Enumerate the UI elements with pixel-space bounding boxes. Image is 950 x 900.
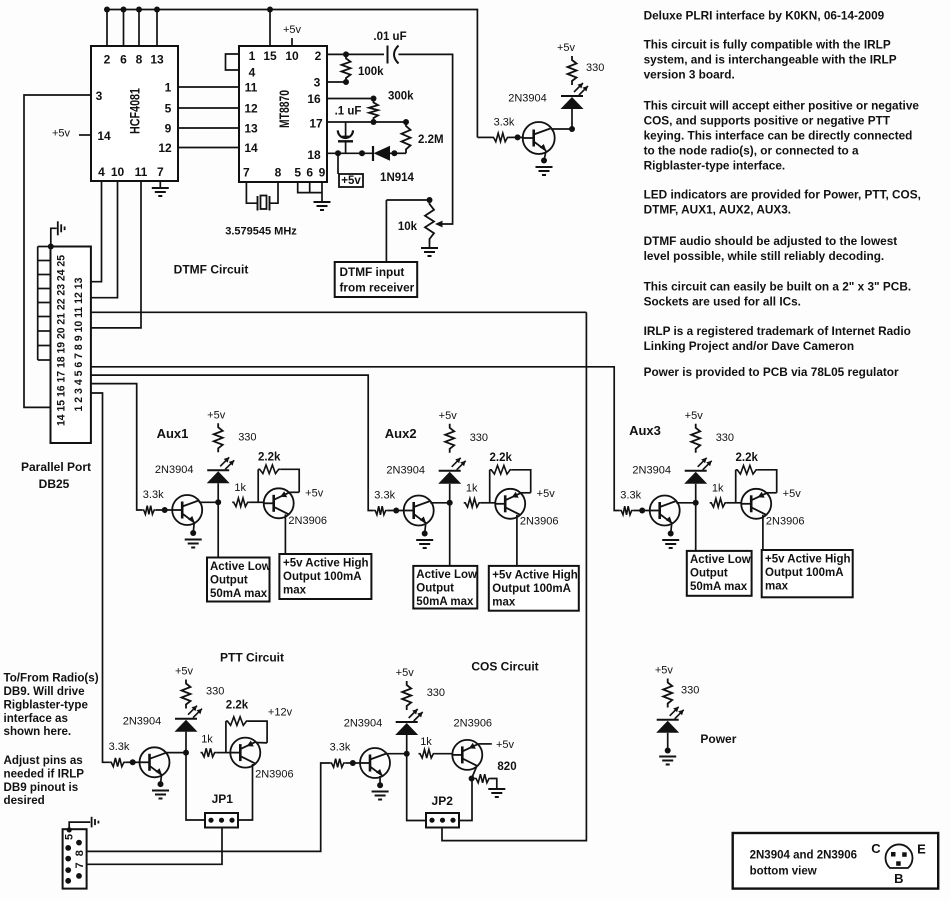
- svg-text:needed if IRLP: needed if IRLP: [4, 767, 85, 780]
- wire: MT8870 pin17 to 2.2M: [327, 121, 406, 123]
- svg-text:Aux1: Aux1: [157, 426, 189, 441]
- wire: DTMF input to 10k pot top: [386, 199, 429, 201]
- wire: HCF4081 pin14 +5v stub: [79, 134, 91, 136]
- transistor 2N3904 (PTT): [140, 747, 170, 777]
- wire: 2N3904 emitter to ground (DTMF): [544, 151, 546, 161]
- HCF4081 top pin stubs 2 6 8 13: [106, 10, 108, 47]
- svg-text:C: C: [871, 841, 881, 856]
- svg-text:Sockets are used for all ICs.: Sockets are used for all ICs.: [644, 294, 801, 308]
- wire: Aux2 2N3906 collector to Active High box: [516, 515, 518, 566]
- ground at 820 (COS): [488, 789, 505, 797]
- Aux3 +5v Active High output box: [762, 550, 853, 597]
- wire: base to 2.2k (Aux3): [735, 470, 737, 503]
- svg-text:from receiver: from receiver: [340, 281, 415, 295]
- junction 2.2M top / pin17 wire: [403, 119, 409, 125]
- svg-text:COS Circuit: COS Circuit: [471, 660, 538, 674]
- ground at MT8870 pins 5 6 9: [314, 202, 331, 210]
- Aux1 Active Low output box: [207, 558, 270, 602]
- svg-text:5: 5: [64, 834, 76, 840]
- wire: Aux1 junction to Active Low box: [217, 502, 219, 557]
- svg-text:2.2k: 2.2k: [226, 700, 249, 712]
- svg-text:330: 330: [716, 432, 734, 444]
- wire: MT8870 pin16 to 300k: [327, 98, 374, 100]
- svg-text:2N3906: 2N3906: [288, 515, 327, 527]
- svg-text:13: 13: [150, 53, 164, 67]
- resistor 300k: [369, 99, 378, 123]
- svg-text:50mA max: 50mA max: [416, 596, 474, 608]
- wire: 2.2k to emitter +5v node (Aux3): [758, 470, 777, 493]
- DB25 grounded pin stubs: [38, 246, 51, 248]
- svg-text:DTMF Circuit: DTMF Circuit: [174, 263, 249, 277]
- svg-text:max: max: [283, 585, 307, 597]
- svg-text:330: 330: [470, 432, 488, 444]
- svg-text:Output: Output: [690, 568, 728, 580]
- wire: 2.2k to +12v emitter node (PTT): [248, 721, 267, 743]
- resistor 330 (Aux3): [691, 424, 700, 453]
- svg-text:330: 330: [238, 431, 256, 443]
- wire: 2N3904 emitter to ground (Aux1): [193, 523, 194, 533]
- svg-text:+5v: +5v: [783, 488, 802, 500]
- junction collector/LED (DTMF): [569, 126, 575, 132]
- wire: 3.3k to 2N3904 base (Aux2): [387, 510, 404, 512]
- svg-text:+5v: +5v: [283, 24, 302, 36]
- svg-text:DTMF input: DTMF input: [340, 265, 405, 279]
- svg-text:+5v: +5v: [341, 175, 361, 187]
- wire: 2N3904 emitter to ground (PTT): [161, 775, 162, 784]
- svg-text:16: 16: [307, 92, 321, 106]
- wire: 2N3906 collector to JP1 right pin (PTT): [238, 764, 253, 820]
- junction 300k bottom / pin17 wire: [371, 119, 377, 125]
- junction HCF4081 pin6 / rail: [121, 7, 127, 13]
- resistor 2.2M: [402, 122, 411, 153]
- wire: 3.3k to 2N3904 base (Aux3): [633, 510, 650, 512]
- junction emitter/ground (PTT): [158, 781, 164, 787]
- svg-text:2N3906: 2N3906: [255, 769, 294, 781]
- resistor 330 (COS): [402, 681, 411, 710]
- transistor 2N3904 (DTMF): [523, 122, 555, 154]
- svg-text:7: 7: [74, 862, 86, 868]
- svg-text:+5v Active High: +5v Active High: [765, 554, 851, 566]
- wire: 1N914 to 2.2M bottom: [390, 152, 406, 154]
- junction 3.3k / base (Aux1): [162, 507, 168, 513]
- wire: HCF4081 pin3 to DB25 pin14: [24, 95, 91, 407]
- wire: DB25 shield to ground: [51, 228, 57, 246]
- wire: HCF4081 pin1 to MT8870 pin11: [178, 86, 239, 88]
- svg-text:330: 330: [681, 685, 699, 697]
- wire: LED to junction (PTT): [185, 732, 187, 753]
- svg-text:2N3904: 2N3904: [344, 718, 383, 730]
- transistor 2N3906 (Aux3): [741, 489, 771, 519]
- svg-text:5: 5: [165, 102, 172, 116]
- transistor can outline (bottom view): [886, 844, 913, 868]
- LED (Aux2): [439, 458, 466, 471]
- svg-text:JP2: JP2: [432, 794, 454, 808]
- junction 10k pot top: [427, 197, 433, 203]
- svg-text:14 15 16 17 18 19 20 21 22 23: 14 15 16 17 18 19 20 21 22 23 24 25: [56, 255, 68, 426]
- wire: LED to collector junction (Aux2): [449, 484, 451, 503]
- svg-text:2.2k: 2.2k: [490, 452, 513, 464]
- svg-text:+5v: +5v: [537, 488, 556, 500]
- svg-text:level possible, while still re: level possible, while still reliably dec…: [644, 249, 885, 263]
- svg-text:50mA max: 50mA max: [210, 588, 268, 600]
- svg-text:11: 11: [135, 165, 148, 179]
- wire: 2N3904 emitter to ground (Aux3): [671, 524, 672, 534]
- junction collector/LED/1k (COS): [404, 751, 410, 757]
- svg-text:50mA max: 50mA max: [690, 581, 748, 593]
- bottom view pin C: [891, 852, 896, 857]
- resistor 2.2k (PTT): [226, 717, 248, 726]
- crystal 3.579545 MHz: [257, 196, 259, 211]
- svg-text:9: 9: [319, 166, 326, 180]
- ground at Power LED: [659, 757, 676, 765]
- svg-text:2N3906: 2N3906: [520, 515, 559, 527]
- ground at 10k pot: [421, 248, 438, 256]
- svg-text:+5v Active High: +5v Active High: [283, 558, 369, 570]
- DB9 pin top right: [76, 840, 82, 846]
- resistor 3.3k (Aux2): [374, 506, 388, 515]
- wire: MT8870 pin10 +5v stub: [291, 38, 293, 46]
- svg-text:1k: 1k: [234, 482, 246, 494]
- wire: DB25 pin5 to Aux2 input: [91, 375, 374, 510]
- junction pin16/300k top: [371, 96, 377, 102]
- svg-text:300k: 300k: [388, 91, 414, 103]
- DB9 pins left column (6 9 4 3): [65, 845, 71, 851]
- resistor 2.2k (Aux1): [258, 465, 280, 474]
- LED (Aux1): [207, 457, 234, 470]
- junction 3.3k / base (Aux2): [393, 508, 399, 514]
- svg-text:330: 330: [586, 62, 604, 74]
- junction HCF4081 pin2 / rail: [104, 7, 110, 13]
- resistor 3.3k (Aux3): [620, 506, 634, 515]
- svg-text:system, and is interchangeable: system, and is interchangeable with the …: [644, 52, 897, 66]
- connector J1 DB25 body: [51, 247, 91, 444]
- resistor 3.3k (COS): [330, 759, 345, 768]
- svg-text:3.3k: 3.3k: [109, 741, 130, 753]
- svg-text:bottom view: bottom view: [750, 866, 817, 878]
- ground at 2N3904 emitter (Aux3): [662, 540, 679, 548]
- wire: emitter to 2.2k corner (Aux2): [521, 492, 531, 494]
- svg-text:Aux2: Aux2: [385, 426, 417, 441]
- svg-text:+5v Active High: +5v Active High: [492, 569, 578, 581]
- svg-text:3.3k: 3.3k: [330, 742, 351, 754]
- wire: base to 2.2k (Aux1): [257, 469, 259, 502]
- svg-text:interface as: interface as: [4, 712, 68, 725]
- svg-text:1k: 1k: [201, 734, 213, 746]
- svg-text:IRLP is a registered trademark: IRLP is a registered trademark of Intern…: [644, 324, 911, 338]
- svg-text:8: 8: [74, 850, 86, 856]
- svg-text:DB25: DB25: [39, 477, 70, 491]
- svg-text:2: 2: [315, 49, 322, 63]
- jumper JP1: [205, 813, 238, 828]
- wire: 2.2k to emitter +5v node (Aux1): [280, 469, 299, 492]
- svg-text:+5v: +5v: [496, 739, 515, 751]
- svg-text:1 2 3 4 5 6 7 8 9 10 11 12 13: 1 2 3 4 5 6 7 8 9 10 11 12 13: [73, 278, 85, 412]
- IC U1 MT8870 body: [239, 46, 327, 182]
- svg-text:Rigblaster-type interface.: Rigblaster-type interface.: [644, 159, 786, 173]
- wire: pin18 node to +5v box: [337, 153, 339, 174]
- wire: .01uF cap to 10k pot wiper: [399, 54, 453, 224]
- svg-text:+5v: +5v: [685, 410, 704, 422]
- LED (DTMF): [561, 83, 588, 96]
- svg-text:DTMF audio should be adjusted: DTMF audio should be adjusted to the low…: [644, 234, 898, 248]
- transistor 2N3904 (Aux2): [404, 496, 434, 526]
- ground at DB9 (rotated): [92, 817, 99, 828]
- resistor 100k: [342, 54, 351, 82]
- svg-text:This circuit will accept eithe: This circuit will accept either positive…: [644, 99, 920, 113]
- resistor 330 (Power): [663, 679, 672, 708]
- svg-text:Output: Output: [210, 575, 248, 587]
- junction collector/820/JP2 (COS): [469, 776, 475, 782]
- svg-text:3: 3: [96, 89, 103, 103]
- wire: MT8870 pin15 to StD rail: [269, 10, 271, 47]
- wire: HCF4081 pin11 to DB25 pin10: [91, 181, 141, 328]
- svg-text:1: 1: [249, 49, 256, 63]
- svg-text:9: 9: [165, 122, 172, 136]
- wire: Aux3 junction to Active Low box: [695, 503, 697, 551]
- Aux3 Active Low output box: [687, 551, 752, 596]
- svg-text:Active Low: Active Low: [416, 569, 477, 581]
- ground at HCF4081 pin7: [152, 188, 169, 196]
- svg-text:12: 12: [158, 141, 172, 155]
- svg-text:DB9. Will drive: DB9. Will drive: [4, 685, 86, 698]
- +5v boxed label at MT8870 pin18: [339, 174, 363, 187]
- wire: collector to LED junction (Aux1): [199, 501, 219, 503]
- svg-text:10: 10: [285, 49, 299, 63]
- wire: MT8870 pin9 to ground: [321, 182, 323, 201]
- wire: DB25 pin11 net down to JP2 center pin: [442, 312, 586, 840]
- svg-text:3.3k: 3.3k: [494, 117, 515, 129]
- junction MT8870 pin15 / rail: [267, 7, 273, 13]
- svg-text:3: 3: [314, 76, 321, 90]
- svg-text:Adjust pins as: Adjust pins as: [4, 754, 83, 767]
- junction pin18 / +5v: [335, 150, 341, 156]
- junction diode cathode node: [391, 150, 397, 156]
- svg-text:+5v: +5v: [439, 410, 458, 422]
- ground at 2N3904 emitter (DTMF): [536, 167, 553, 175]
- wire: HCF4081 pin5 to MT8870 pin12: [178, 107, 239, 109]
- svg-text:Output 100mA: Output 100mA: [765, 567, 844, 579]
- Aux2 Active Low output box: [413, 566, 477, 609]
- svg-text:330: 330: [206, 686, 224, 698]
- junction pin2/100k top: [343, 51, 349, 57]
- junction 100k bottom / pin3: [343, 79, 349, 85]
- ground at 2N3904 emitter (Aux1): [185, 540, 202, 548]
- svg-text:330: 330: [427, 687, 445, 699]
- transistor 2N3904 (COS): [360, 748, 390, 778]
- junction collector/LED/1k (PTT): [183, 750, 189, 756]
- svg-text:7: 7: [243, 166, 250, 180]
- wire: Aux3 2N3906 collector to Active High box: [762, 515, 764, 550]
- svg-text:desired: desired: [4, 794, 45, 807]
- svg-text:3.3k: 3.3k: [143, 489, 164, 501]
- wire: collector to LED junction (Aux2): [430, 502, 450, 504]
- svg-text:13: 13: [244, 122, 258, 136]
- wire: base to 2.2k (PTT): [225, 721, 227, 753]
- wire: 1k to 2N3906 base (COS): [435, 753, 452, 755]
- wire: base to 2.2k (Aux2): [489, 470, 491, 503]
- svg-text:DB9 pinout is: DB9 pinout is: [4, 781, 79, 794]
- svg-text:max: max: [492, 596, 516, 608]
- junction Power LED / ground: [665, 748, 671, 754]
- junction collector/LED/1k/output (Aux2): [447, 500, 453, 506]
- svg-text:2N3904: 2N3904: [123, 716, 162, 728]
- wire: emitter to +12v corner (PTT): [256, 742, 267, 744]
- svg-text:PTT Circuit: PTT Circuit: [220, 651, 284, 665]
- svg-text:to the node radio(s), or conne: to the node radio(s), or connected to a: [644, 144, 859, 158]
- junction DB9 shield: [67, 827, 72, 832]
- transistor 2N3906 (PTT): [230, 738, 260, 768]
- svg-text:2: 2: [104, 53, 111, 67]
- svg-text:2N3904: 2N3904: [632, 465, 671, 477]
- svg-text:JP1: JP1: [212, 792, 234, 806]
- wire: DB9 shield to ground: [69, 822, 90, 830]
- svg-text:Power is provided to PCB via 7: Power is provided to PCB via 78L05 regul…: [644, 365, 899, 379]
- wire: DB25 pin3 to PTT input: [91, 393, 110, 762]
- svg-text:HCF4081: HCF4081: [127, 88, 143, 134]
- svg-text:4: 4: [98, 165, 105, 179]
- wire: 2N3904 emitter to ground (COS): [379, 776, 381, 785]
- wire: 1k to 2N3906 base (Aux2): [481, 502, 496, 504]
- LED (Power): [657, 707, 684, 720]
- svg-text:2.2M: 2.2M: [418, 134, 444, 146]
- wire: DB25 pin4 to Aux1 input: [91, 384, 142, 510]
- wire: PTT junction to JP1 left pin: [186, 753, 205, 820]
- wire: DB9 pin8 to COS input: [87, 763, 330, 851]
- wire: crystal to MT8870 pin8: [270, 182, 279, 203]
- resistor 330 (DTMF): [568, 56, 577, 85]
- wire: HCF4081 pin12 to MT8870 pin14: [178, 147, 239, 149]
- resistor 2.2k (Aux2): [490, 466, 512, 475]
- wire: LED to junction (COS): [406, 735, 408, 754]
- svg-text:2.2k: 2.2k: [258, 451, 281, 463]
- svg-text:3.3k: 3.3k: [374, 490, 395, 502]
- svg-text:2N3904: 2N3904: [508, 93, 547, 105]
- svg-text:6: 6: [306, 166, 313, 180]
- wire: 2.2k to emitter +5v node (Aux2): [512, 470, 531, 493]
- svg-text:max: max: [765, 581, 789, 593]
- potentiometer 10k: [425, 200, 434, 243]
- wire: JP2 right pin to 820 node: [459, 779, 472, 821]
- wire: 3.3k to 2N3904 base (DTMF): [509, 136, 524, 138]
- wire: LED to collector junction (Aux3): [695, 484, 697, 503]
- transistor 2N3906 (COS): [452, 740, 482, 770]
- svg-text:DTMF, AUX1, AUX2, AUX3.: DTMF, AUX1, AUX2, AUX3.: [644, 203, 791, 217]
- resistor 820 (COS): [475, 774, 491, 783]
- wire: collector to LED (DTMF): [551, 128, 572, 130]
- svg-text:E: E: [917, 842, 926, 857]
- svg-text:14: 14: [97, 129, 111, 143]
- svg-text:COS, and supports positive or: COS, and supports positive or negative P…: [644, 114, 891, 128]
- svg-text:+5v: +5v: [655, 665, 674, 677]
- svg-text:8: 8: [275, 166, 282, 180]
- resistor 330 (PTT): [182, 680, 191, 709]
- svg-text:2N3906: 2N3906: [766, 515, 805, 527]
- capacitor .01 uF: [387, 46, 389, 64]
- wire: emitter to 2.2k corner (Aux1): [290, 491, 300, 493]
- svg-text:17: 17: [309, 117, 323, 131]
- junction emitter/ground (Aux3): [668, 531, 674, 537]
- svg-text:8: 8: [136, 53, 143, 67]
- 2N3904/2N3906 bottom view box: [733, 833, 939, 889]
- wire: 2N3906 collector to 820 (COS): [472, 766, 477, 779]
- junction pin18 wire / diode anode: [359, 150, 365, 156]
- diode 1N914: [372, 146, 374, 161]
- svg-text:+5v: +5v: [557, 42, 576, 54]
- svg-text:version 3 board.: version 3 board.: [644, 67, 735, 81]
- svg-text:2N3904: 2N3904: [155, 464, 194, 476]
- svg-text:Active Low: Active Low: [690, 554, 751, 566]
- bottom view pin B: [896, 861, 901, 866]
- wire: 10k pot to ground: [429, 243, 431, 247]
- junction 3.3k / base (PTT): [130, 759, 136, 765]
- transistor 2N3904 (Aux1): [172, 495, 202, 525]
- junction HCF4081 pin8 / rail: [136, 7, 142, 13]
- transistor 2N3904 (Aux3): [650, 496, 680, 526]
- svg-text:+5v: +5v: [207, 409, 226, 421]
- DTMF input from receiver box: [335, 262, 418, 297]
- jumper JP2: [426, 813, 459, 828]
- svg-text:2N3904 and 2N3906: 2N3904 and 2N3906: [750, 850, 857, 862]
- wire: 3.3k to 2N3904 base (COS): [345, 762, 360, 764]
- svg-text:100k: 100k: [358, 66, 384, 78]
- ground at 2N3904 emitter (COS): [372, 792, 389, 800]
- junction DB25 ground pin: [48, 244, 54, 250]
- wire: collector to LED junction (Aux3): [676, 502, 696, 504]
- resistor 3.3k (PTT): [110, 758, 126, 767]
- wire: JP1 center pin to DB9 pin7: [87, 828, 222, 865]
- wire: rail to 3.3k (DTMF): [477, 136, 492, 138]
- Aux2 +5v Active High output box: [489, 566, 579, 611]
- resistor 330 (Aux2): [445, 424, 454, 453]
- svg-text:7: 7: [157, 165, 164, 179]
- svg-text:1: 1: [165, 81, 172, 95]
- transistor 2N3906 (Aux2): [495, 489, 525, 519]
- wire: 3.3k to 2N3904 base (PTT): [125, 761, 139, 763]
- svg-text:To/From Radio(s): To/From Radio(s): [4, 672, 99, 685]
- resistor 3.3k (DTMF indicator): [492, 133, 509, 142]
- transistor 2N3906 (Aux1): [264, 488, 294, 518]
- wire: MT8870 pin1 to pin4 loop: [226, 54, 240, 70]
- junction collector/LED/1k/output (Aux1): [215, 499, 221, 505]
- svg-text:820: 820: [497, 761, 516, 773]
- svg-text:15: 15: [263, 49, 277, 63]
- resistor 1k (Aux3): [710, 499, 727, 508]
- svg-text:.1 uF: .1 uF: [335, 106, 362, 118]
- wire: MT8870 pin18 to 1N914: [327, 152, 373, 154]
- svg-text:2N3906: 2N3906: [454, 718, 493, 730]
- svg-text:This circuit is fully compatib: This circuit is fully compatible with th…: [644, 37, 891, 51]
- svg-text:1k: 1k: [420, 736, 432, 748]
- svg-text:keying. This interface can be: keying. This interface can be directly c…: [644, 129, 913, 143]
- svg-text:+5v: +5v: [305, 487, 324, 499]
- junction HCF4081 pin13 / rail: [154, 7, 160, 13]
- svg-text:shown here.: shown here.: [4, 725, 72, 738]
- LED (Aux3): [685, 458, 712, 471]
- svg-text:4: 4: [249, 66, 256, 80]
- svg-text:10k: 10k: [398, 221, 418, 233]
- svg-text:1k: 1k: [712, 482, 724, 494]
- svg-text:Linking Project and/or Dave Ca: Linking Project and/or Dave Cameron: [644, 339, 854, 353]
- resistor 330 (Aux1): [214, 423, 223, 452]
- junction 3.3k / base (Aux3): [639, 508, 645, 514]
- svg-text:+5v: +5v: [175, 666, 194, 678]
- resistor 1k (COS): [419, 749, 435, 758]
- wire: 1k to 2N3906 base (PTT): [216, 752, 230, 754]
- svg-text:MT8870: MT8870: [276, 90, 292, 128]
- wire: MT8870 pin6 to ground bus: [309, 182, 311, 193]
- wire: LED to collector (DTMF): [571, 109, 573, 129]
- wire: MT8870 pin2 to .01uF cap: [327, 53, 384, 55]
